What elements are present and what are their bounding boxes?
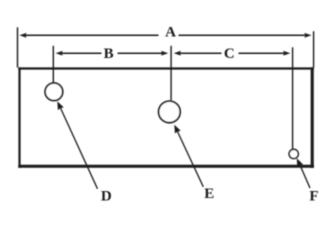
- svg-text:D: D: [101, 188, 112, 204]
- svg-text:B: B: [104, 46, 114, 62]
- svg-text:F: F: [309, 188, 318, 204]
- svg-text:C: C: [224, 46, 235, 62]
- svg-text:E: E: [204, 186, 214, 202]
- svg-text:A: A: [165, 25, 176, 41]
